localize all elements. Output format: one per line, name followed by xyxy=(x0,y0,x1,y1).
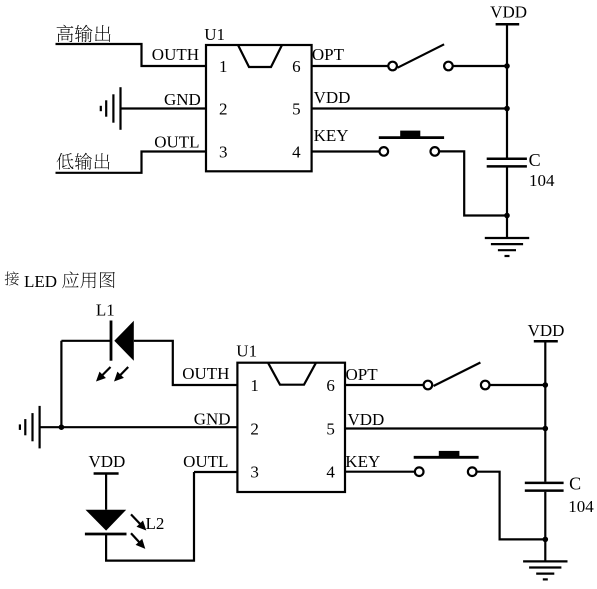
ground symbol (top left) xyxy=(101,87,121,130)
push button SW (top) bar xyxy=(379,136,444,139)
LED L1 cathode bar xyxy=(110,321,113,361)
svg-text:OUTH: OUTH xyxy=(152,45,199,64)
svg-text:2: 2 xyxy=(219,99,228,118)
svg-text:GND: GND xyxy=(164,90,201,109)
label 高输出 (high output) xyxy=(57,25,111,42)
push button (bottom) bar xyxy=(414,456,479,459)
svg-text:3: 3 xyxy=(250,463,259,482)
svg-text:C: C xyxy=(529,150,541,170)
LED L2 emission arrow 2 xyxy=(131,533,145,549)
svg-text:104: 104 xyxy=(529,171,555,190)
wire: U1 pin 4 (KEY, bottom) to push button xyxy=(345,471,415,473)
wire: push button to bottom node (bottom circuit) xyxy=(477,472,546,540)
svg-text:L1: L1 xyxy=(96,300,115,319)
wire: VDD rail vertical (bottom), below capacitor xyxy=(544,492,546,562)
LED L2 emission arrow 1 xyxy=(131,514,146,530)
VDD supply bar (L2) xyxy=(94,472,119,474)
svg-text:KEY: KEY xyxy=(345,452,380,471)
wire: ground to U1 pin 2 (GND) xyxy=(121,107,207,109)
LED L1 triangle (anode) xyxy=(114,321,134,361)
wire: L1 branch down to GND wire xyxy=(60,341,62,427)
wire: ground to U1 pin 2 (GND, bottom) xyxy=(40,426,238,428)
wire: VDD rail vertical (top), above capacitor xyxy=(506,24,508,157)
switch (bottom) right contact xyxy=(481,381,490,390)
svg-text:U1: U1 xyxy=(236,341,257,360)
junction: bottom node on VDD rail (bottom) xyxy=(543,537,549,543)
svg-text:VDD: VDD xyxy=(314,88,351,107)
svg-text:OUTL: OUTL xyxy=(154,132,199,151)
svg-text:104: 104 xyxy=(568,497,594,516)
junction: bottom node on VDD rail (top) xyxy=(504,213,510,219)
svg-text:KEY: KEY xyxy=(314,126,349,145)
wire: VDD rail vertical (top), below capacitor xyxy=(506,168,508,239)
switch S1 (top) left contact xyxy=(388,62,397,71)
wire: 低输出 terminal to U1 pin 3 (OUTL) xyxy=(56,152,207,173)
switch S1 (top) lever xyxy=(398,44,445,67)
capacitor C 104 (top) bottom plate xyxy=(487,165,527,168)
svg-text:OUTL: OUTL xyxy=(183,452,228,471)
LED L1 emission arrow 1 xyxy=(96,367,111,382)
svg-text:OPT: OPT xyxy=(312,45,345,64)
svg-text:C: C xyxy=(569,473,581,493)
wire: U1 pin 6 (OPT) to switch S1 xyxy=(312,65,389,67)
wire: U1 pin 6 (OPT, bottom) to switch xyxy=(345,384,424,386)
switch (bottom) left contact xyxy=(424,381,433,390)
VDD supply bar (bottom rail) xyxy=(534,340,558,343)
IC U1 (top) pin-1 orientation notch xyxy=(238,45,282,67)
svg-text:VDD: VDD xyxy=(490,2,527,21)
IC U1 (top circuit) package body xyxy=(206,45,312,171)
svg-text:6: 6 xyxy=(326,376,335,395)
push button (bottom) right contact xyxy=(468,467,477,476)
svg-text:1: 1 xyxy=(219,57,228,76)
junction: OPT/switch on VDD rail (top) xyxy=(504,63,510,69)
push button SW (top) right contact xyxy=(431,147,440,156)
svg-text:2: 2 xyxy=(250,419,259,438)
wire: U1 pin 5 (VDD, bottom) to rail xyxy=(345,427,545,429)
capacitor C 104 (bottom) bottom plate xyxy=(525,489,564,492)
svg-text:L2: L2 xyxy=(146,514,165,533)
svg-text:5: 5 xyxy=(292,99,301,118)
wire: U1 pin 5 (VDD) to VDD rail xyxy=(312,107,507,109)
title char 接 xyxy=(5,271,19,285)
ground symbol (bottom right) xyxy=(523,561,567,579)
svg-text:OPT: OPT xyxy=(346,365,379,384)
LED L2 triangle (anode) xyxy=(86,510,127,531)
wire: LED L2 cathode down and across to OUTL xyxy=(106,472,194,561)
junction: pin-5 VDD on rail (bottom) xyxy=(543,426,549,432)
push button (bottom) plunger xyxy=(439,451,460,457)
svg-text:5: 5 xyxy=(326,419,335,438)
svg-text:GND: GND xyxy=(194,410,231,429)
svg-text:3: 3 xyxy=(219,142,228,161)
svg-text:OUTH: OUTH xyxy=(182,364,229,383)
IC U1 (bottom circuit) package body xyxy=(237,363,345,492)
LED L1 emission arrow 2 xyxy=(114,367,128,382)
wire: switch to VDD rail (bottom) xyxy=(490,384,546,386)
svg-text:U1: U1 xyxy=(204,25,225,44)
svg-text:VDD: VDD xyxy=(528,321,565,340)
svg-text:1: 1 xyxy=(250,376,259,395)
capacitor C 104 (top) top plate xyxy=(487,158,527,161)
switch (bottom) lever xyxy=(434,363,481,387)
switch S1 (top) right contact xyxy=(444,62,453,71)
IC U1 (bottom) pin-1 orientation notch xyxy=(268,363,316,385)
push button SW (top) left contact xyxy=(380,147,389,156)
wire: U1 pin 3 (OUTL) to L2 branch xyxy=(194,471,237,473)
svg-text:VDD: VDD xyxy=(348,410,385,429)
push button SW (top) plunger xyxy=(400,131,420,137)
LED L2 cathode bar xyxy=(85,533,127,536)
wire: U1 pin 4 (KEY) to push button SW (top) xyxy=(312,150,380,152)
wire: 高输出 terminal to U1 pin 1 (OUTH) xyxy=(56,44,207,66)
junction: pin-5 VDD on rail (top) xyxy=(504,106,510,112)
label 低输出 (low output) xyxy=(57,153,110,170)
svg-text:6: 6 xyxy=(292,57,301,76)
junction: L1 branch on GND wire xyxy=(59,424,65,430)
svg-text:LED: LED xyxy=(24,272,57,291)
VDD supply bar (top rail) xyxy=(496,23,520,26)
ground symbol (bottom left) xyxy=(20,406,40,449)
wire: LED L1 cathode to ground node xyxy=(61,340,111,342)
wire: U1 pin 1 (OUTH) to LED L1 anode xyxy=(134,341,238,385)
wire: VDD bar to LED L2 anode xyxy=(105,474,107,510)
junction: OPT/switch on VDD rail (bottom) xyxy=(543,382,549,388)
svg-text:4: 4 xyxy=(326,463,335,482)
wire: push button to bottom node (top circuit) xyxy=(439,151,507,215)
svg-text:VDD: VDD xyxy=(88,452,125,471)
capacitor C 104 (bottom) top plate xyxy=(525,482,564,485)
ground symbol (top right) xyxy=(485,238,529,256)
title chars 应用图 xyxy=(62,271,115,288)
svg-text:4: 4 xyxy=(292,142,301,161)
wire: VDD rail vertical (bottom), above capacitor xyxy=(544,342,546,482)
push button (bottom) left contact xyxy=(415,467,424,476)
wire: switch S1 to VDD rail xyxy=(453,65,507,67)
